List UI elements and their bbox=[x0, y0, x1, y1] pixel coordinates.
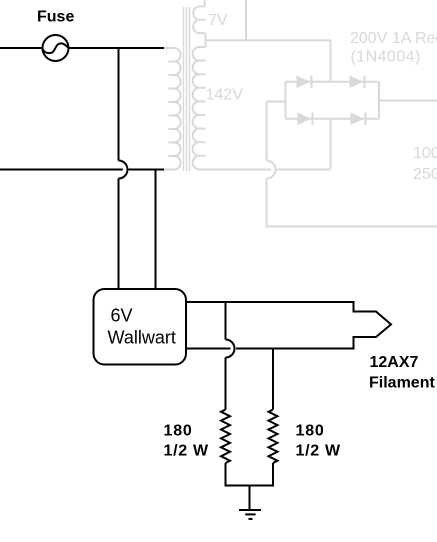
wire vertical C upper (x=225.5 from plug top rail) bbox=[225, 302, 227, 340]
resistor R1 bbox=[221, 410, 230, 464]
wire hop of vertical A over bottom wire bbox=[119, 161, 128, 179]
transformer T1 secondary 142V winding bbox=[193, 40, 206, 169]
resistor R2 bbox=[269, 410, 278, 464]
wire R1 lower lead bbox=[225, 463, 227, 487]
wire top AC line left segment bbox=[0, 47, 43, 49]
svg-text:Filament: Filament bbox=[369, 375, 435, 392]
svg-text:142V: 142V bbox=[206, 87, 244, 104]
wire bottom AC line right segment to transformer bbox=[129, 169, 165, 171]
wire vertical E lower bbox=[266, 179, 268, 226]
wire plug bottom rail left segment bbox=[186, 348, 231, 350]
diode D1 bbox=[297, 76, 312, 89]
wire bottom connector bbox=[226, 485, 274, 487]
svg-text:250V: 250V bbox=[413, 166, 437, 183]
wire 7V tap line bbox=[206, 39, 331, 41]
12AX7 filament plug outline bbox=[186, 302, 391, 349]
wire gray bottom return line to right edge bbox=[266, 226, 437, 228]
transformer T1 secondary 7V winding bbox=[193, 0, 205, 40]
diode D2 bbox=[350, 76, 365, 89]
wire top AC line to transformer bbox=[69, 47, 165, 49]
transformer T1 core bbox=[184, 7, 190, 171]
wire secondary bottom right segment bbox=[277, 169, 331, 171]
wire vertical C lower to R1 bbox=[225, 358, 227, 410]
wire bridge input stub bbox=[267, 101, 286, 103]
svg-text:7V: 7V bbox=[208, 12, 228, 29]
diode D4 bbox=[351, 113, 366, 126]
diode D3 bbox=[298, 113, 313, 126]
svg-text:100uF: 100uF bbox=[413, 145, 437, 162]
wire R2 lower lead bbox=[272, 463, 274, 487]
wire vertical A lower into wallwart bbox=[118, 179, 120, 291]
wire vertical stub to top edge bbox=[245, 0, 247, 40]
wallwart PS1 box bbox=[94, 289, 187, 365]
svg-text:12AX7: 12AX7 bbox=[370, 354, 419, 371]
svg-text:1/2 W: 1/2 W bbox=[296, 443, 341, 460]
svg-text:Fuse: Fuse bbox=[37, 9, 74, 26]
wire vertical A upper (x=118.5 from top wire) bbox=[118, 48, 120, 161]
svg-text:200V 1A Rect: 200V 1A Rect bbox=[350, 30, 437, 47]
wire bridge bottom center down to secondary bottom bbox=[330, 119, 332, 170]
wire hop of vertical E over secondary bottom wire bbox=[267, 161, 276, 179]
svg-text:Wallwart: Wallwart bbox=[108, 328, 176, 348]
svg-text:1/2 W: 1/2 W bbox=[164, 443, 209, 460]
wire hop of vertical C over plug bottom rail bbox=[226, 340, 235, 358]
wire secondary bottom left segment bbox=[198, 169, 271, 171]
wire ground stem bbox=[249, 486, 251, 510]
svg-text:180: 180 bbox=[164, 423, 193, 440]
fuse F1 bbox=[43, 35, 69, 61]
transformer T1 primary winding bbox=[164, 48, 181, 170]
ground bbox=[239, 510, 261, 519]
wire vertical D (x=273 from plug bottom rail to R2) bbox=[272, 349, 274, 410]
wire vertical E upper (x=266.5) bbox=[266, 102, 268, 161]
svg-text:180: 180 bbox=[296, 423, 325, 440]
wire vertical B (x=155.5 to wallwart) bbox=[155, 170, 157, 291]
svg-text:(1N4004): (1N4004) bbox=[351, 49, 421, 66]
wire bottom AC line left segment bbox=[0, 169, 123, 171]
wire from tap down to bridge top center bbox=[330, 40, 332, 82]
wire bridge output to right edge bbox=[379, 100, 437, 102]
svg-text:6V: 6V bbox=[111, 306, 133, 326]
bridge rectifier outline bbox=[286, 82, 380, 119]
